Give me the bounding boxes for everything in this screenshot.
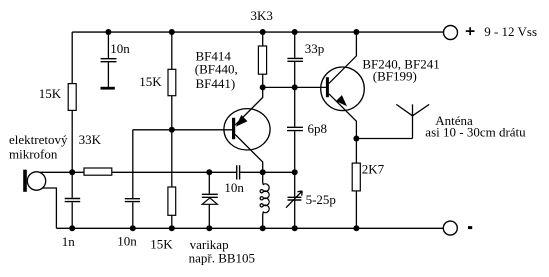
- svg-text:asi 10 - 30cm drátu: asi 10 - 30cm drátu: [425, 124, 526, 139]
- svg-text:33p: 33p: [305, 41, 325, 56]
- svg-text:10n: 10n: [224, 180, 244, 195]
- svg-text:elektretový: elektretový: [9, 132, 68, 147]
- svg-text:10n: 10n: [117, 233, 137, 248]
- svg-text:6p8: 6p8: [308, 121, 328, 136]
- svg-text:(BF199): (BF199): [373, 68, 417, 83]
- svg-text:15K: 15K: [39, 86, 62, 101]
- svg-text:10n: 10n: [110, 41, 130, 56]
- svg-text:např. BB105: např. BB105: [189, 251, 255, 266]
- svg-text:3K3: 3K3: [251, 8, 273, 23]
- svg-text:5-25p: 5-25p: [306, 192, 336, 207]
- svg-text:1n: 1n: [62, 234, 76, 249]
- svg-text:15K: 15K: [139, 74, 162, 89]
- svg-text:15K: 15K: [150, 236, 173, 251]
- svg-text:9 - 12 Vss: 9 - 12 Vss: [484, 24, 537, 39]
- svg-text:(BF440,: (BF440,: [195, 61, 238, 76]
- svg-text:33K: 33K: [79, 132, 102, 147]
- svg-text:BF441): BF441): [196, 76, 236, 91]
- svg-text:mikrofon: mikrofon: [9, 147, 58, 162]
- svg-text:2K7: 2K7: [362, 162, 385, 177]
